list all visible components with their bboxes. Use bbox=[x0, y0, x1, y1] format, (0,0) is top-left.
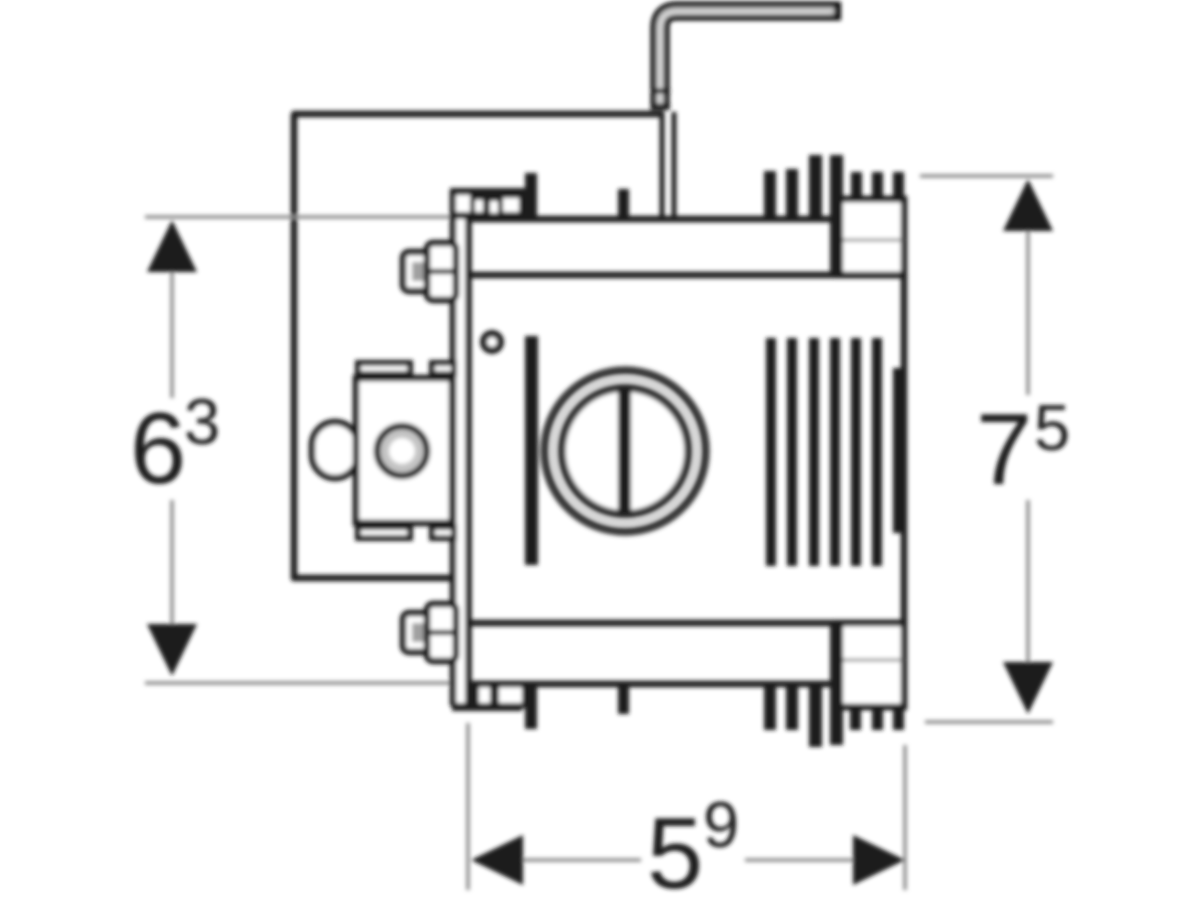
middle fin 6 bbox=[872, 338, 882, 566]
bottom block fin 3 bbox=[893, 705, 904, 730]
knob inner ring bbox=[562, 388, 689, 515]
rod lower section right line bbox=[672, 112, 677, 217]
dimension 59 right arrow bbox=[853, 835, 905, 885]
top block fin 1 bbox=[851, 172, 862, 200]
bracket loop bbox=[312, 422, 358, 478]
middle fin 4 bbox=[830, 338, 840, 566]
rod lower section left line bbox=[660, 112, 665, 217]
dimension 75 up arrow bbox=[1003, 179, 1053, 231]
top bolt head inner bbox=[412, 262, 425, 281]
bracket top tab 2 bbox=[432, 363, 454, 374]
bracket washer center bbox=[389, 438, 415, 464]
unit bottom band upper line bbox=[468, 620, 906, 627]
top block fin 3 bbox=[893, 172, 904, 200]
mounting plate right edge bbox=[465, 190, 472, 706]
wall frame left edge bbox=[291, 113, 298, 580]
unit top band lower line bbox=[468, 272, 906, 279]
bracket washer bbox=[377, 426, 427, 476]
dimension 75 line upper bbox=[1026, 230, 1030, 395]
bottom block fin 2 bbox=[872, 705, 883, 730]
bottom fin 2 bbox=[786, 684, 798, 730]
bottom post bbox=[525, 684, 537, 729]
push rod tube highlight bbox=[660, 13, 830, 104]
bottom rail base bbox=[471, 682, 527, 708]
rod joint upper line bbox=[651, 89, 670, 94]
svg-text:7: 7 bbox=[976, 394, 1032, 506]
middle fin 2 bbox=[787, 338, 797, 566]
knob outer ring bbox=[545, 371, 706, 532]
top rail base bbox=[450, 188, 527, 219]
top block fin 2 bbox=[872, 172, 883, 200]
bottom rail cell 1 bbox=[479, 687, 490, 703]
knob ring gap tint bbox=[553, 379, 697, 523]
wall frame top edge bbox=[292, 111, 664, 118]
dimension 75 down arrow bbox=[1003, 662, 1053, 714]
dimension 59 line right bbox=[745, 858, 900, 862]
bottom bolt head bbox=[403, 613, 432, 652]
bottom fin 3 bbox=[809, 684, 822, 747]
top post bbox=[525, 173, 537, 219]
dimension 63 line upper bbox=[170, 270, 174, 398]
bottom fin lone bbox=[618, 684, 629, 714]
right thick bar bbox=[893, 368, 907, 533]
svg-text:5: 5 bbox=[647, 798, 703, 900]
top fin 4 block left edge bbox=[830, 155, 843, 275]
bottom bolt nut facet line bbox=[428, 630, 456, 635]
dimension 75 top extension line bbox=[920, 174, 1053, 178]
svg-text:3: 3 bbox=[184, 385, 220, 458]
push rod tube outline bbox=[660, 11, 841, 110]
push rod tube inner fill bbox=[660, 11, 834, 107]
knob slot bbox=[618, 387, 631, 515]
bracket top tab 1 bbox=[358, 363, 410, 374]
dimension 59 left arrow bbox=[471, 835, 523, 885]
top bolt head bbox=[403, 252, 432, 291]
top rail cell 1 bbox=[456, 195, 470, 212]
top fin 2 bbox=[786, 169, 798, 219]
middle fin 5 bbox=[851, 338, 861, 566]
top right block bbox=[837, 199, 904, 275]
bracket bottom tab 2 bbox=[432, 527, 454, 538]
bottom rail cell 2 bbox=[499, 686, 522, 703]
middle fin 1 bbox=[766, 338, 776, 566]
top bolt nut bbox=[427, 243, 456, 300]
svg-text:5: 5 bbox=[1034, 391, 1070, 464]
dimension 75 line lower bbox=[1026, 500, 1030, 668]
bottom fin 4 block left edge bbox=[830, 625, 843, 745]
unit top edge bbox=[468, 216, 838, 223]
dimension 63 up arrow bbox=[147, 220, 197, 272]
bottom bolt head inner bbox=[412, 623, 425, 642]
top rail cell 3 bbox=[490, 201, 498, 213]
bracket bottom tab 1 bbox=[358, 527, 410, 538]
unit right edge bbox=[901, 275, 908, 623]
bottom fin 1 bbox=[764, 684, 776, 730]
middle fin 3 bbox=[809, 338, 819, 566]
bottom right block bbox=[837, 623, 904, 707]
top fin 3 bbox=[809, 155, 822, 219]
dimension 63 top extension line bbox=[145, 215, 452, 219]
dimension 75 bottom extension line bbox=[925, 720, 1053, 724]
unit bottom edge bbox=[468, 681, 838, 688]
dimension 63 bottom extension line bbox=[145, 681, 452, 685]
small hole bbox=[484, 334, 501, 351]
dimension 63 line lower bbox=[170, 500, 174, 626]
svg-text:6: 6 bbox=[130, 393, 186, 505]
mounting plate left edge bbox=[450, 190, 457, 706]
top right block gray line bbox=[839, 239, 902, 242]
rod joint lower line bbox=[651, 104, 670, 109]
bottom bolt nut bbox=[427, 604, 456, 661]
bottom rail bottom edge bbox=[452, 703, 522, 711]
top fin 1 bbox=[764, 171, 776, 219]
bracket block bbox=[356, 378, 452, 523]
top rail cell 2 bbox=[475, 200, 483, 212]
dimension 63 down arrow bbox=[147, 624, 197, 676]
knob left post bbox=[525, 336, 538, 565]
top rail cell 4 bbox=[503, 198, 519, 212]
bottom block fin 1 bbox=[850, 705, 861, 730]
svg-text:9: 9 bbox=[703, 788, 739, 861]
dimension 59 right extension line bbox=[903, 745, 907, 890]
mounting plate fill bbox=[455, 192, 467, 704]
wall frame bottom edge bbox=[292, 575, 452, 582]
top bolt nut facet line bbox=[428, 269, 456, 274]
dimension 59 line left bbox=[475, 858, 641, 862]
bottom right block gray line bbox=[839, 659, 902, 662]
dimension 59 left extension line bbox=[466, 723, 470, 890]
top fin lone bbox=[618, 189, 629, 219]
